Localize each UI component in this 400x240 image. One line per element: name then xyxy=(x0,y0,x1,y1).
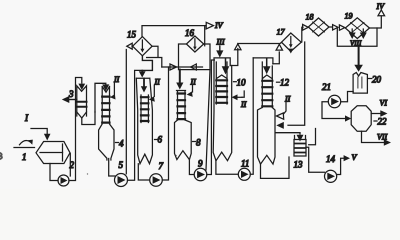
scan speckle xyxy=(87,155,177,175)
node II steam to column 8 xyxy=(187,78,197,97)
label 4 xyxy=(116,139,125,149)
wire drum bottom outlet into column 8 top xyxy=(176,70,183,90)
wire column 12 vapor riser to exchanger 17 xyxy=(273,42,283,64)
svg-text:4: 4 xyxy=(119,139,124,149)
wire column 4 bottoms to pump 5 xyxy=(109,159,115,177)
wire side draw from column 12 to stripper 13 xyxy=(276,133,304,142)
wire pump 11 discharge riser to column 12 top xyxy=(250,58,253,174)
label 12 xyxy=(277,78,290,88)
stripper 13 inlet collar xyxy=(295,136,306,140)
node VII outlet xyxy=(362,131,392,146)
label 21 xyxy=(322,82,331,92)
label 10 xyxy=(234,77,247,87)
node V outlet xyxy=(352,153,358,162)
wire pump discharge riser to vessel 3 xyxy=(69,78,85,181)
wire exchanger 19 to IV outlet xyxy=(370,10,385,28)
svg-text:9: 9 xyxy=(198,159,203,169)
svg-text:22: 22 xyxy=(378,117,388,127)
pump 9 xyxy=(194,168,207,181)
svg-text:5: 5 xyxy=(119,160,124,170)
wire feed I into reactor xyxy=(31,129,51,141)
node VI outlet xyxy=(371,99,387,117)
wire feed line from right with II steam branch xyxy=(232,91,245,100)
svg-text:I: I xyxy=(24,113,29,123)
label 16 xyxy=(185,28,195,38)
wire gooseneck feed into column 4 top xyxy=(95,83,109,112)
svg-text:6: 6 xyxy=(158,135,163,145)
wire internal feed pipe into column 10 xyxy=(222,59,230,75)
wire open arrow at exchanger 15 left vertex xyxy=(127,43,133,49)
label 9 xyxy=(198,159,203,169)
wire product arrow from vessel 3 xyxy=(62,96,77,103)
pump 11 xyxy=(238,168,250,180)
node IV right outlet xyxy=(376,2,386,11)
column 6 xyxy=(136,78,152,164)
label 6 xyxy=(155,135,163,145)
svg-text:IV: IV xyxy=(214,21,224,30)
svg-text:21: 21 xyxy=(322,82,331,92)
wire stripper 13 riser stub xyxy=(309,129,316,145)
wire reactor bottom to pump xyxy=(50,164,58,181)
accumulator drum under exchanger 16 xyxy=(179,44,211,70)
svg-text:14: 14 xyxy=(326,154,336,164)
stripper 13 xyxy=(294,140,306,157)
label 5 xyxy=(119,160,124,170)
node II steam to column 4 xyxy=(110,75,120,100)
pump 21 xyxy=(328,95,340,107)
label 20 xyxy=(369,75,382,85)
svg-text:7: 7 xyxy=(159,161,164,171)
label 7 xyxy=(159,161,164,171)
node VIII collector box under 18-19 xyxy=(337,27,377,47)
svg-text:VII: VII xyxy=(377,133,388,142)
svg-text:8: 8 xyxy=(196,138,201,148)
wire vessel 20 outlet to pump 21 xyxy=(341,92,353,102)
svg-text:VIII: VIII xyxy=(350,40,362,48)
wire VIII down into vessel 20 xyxy=(354,46,363,71)
svg-text:IV: IV xyxy=(376,2,386,11)
pump 14 xyxy=(325,170,337,182)
node II steam to column 10 xyxy=(240,100,247,109)
svg-text:16: 16 xyxy=(185,28,195,38)
wire exchanger 15 right vertex to header xyxy=(147,46,162,67)
label 3 xyxy=(68,89,74,99)
wire reflux line from condenser 15 down to pump 5 xyxy=(125,50,127,174)
wire stripper 13 bottoms to pump 14 xyxy=(306,147,325,172)
svg-text:19: 19 xyxy=(345,12,353,21)
svg-text:V: V xyxy=(352,153,358,162)
wire exchanger 17 condensate down into column 12 xyxy=(276,42,304,129)
wire pump 5 discharge riser to column 6 feed xyxy=(128,70,143,180)
mixer 1 rotary symbol xyxy=(14,140,35,148)
node III feed label xyxy=(216,38,225,47)
wire exchanger 15 bottom S-jog into column 6 top xyxy=(139,56,153,78)
wire exchanger 17 to exchanger 18 xyxy=(301,24,308,42)
label 18 xyxy=(306,13,314,22)
svg-text:12: 12 xyxy=(280,78,290,88)
label 11 xyxy=(241,159,249,169)
svg-text:III: III xyxy=(216,38,225,47)
label 19 xyxy=(345,12,353,21)
label 2 xyxy=(70,160,75,170)
column 10 xyxy=(213,58,232,161)
pump under reactor 2 xyxy=(58,175,69,186)
vessel 22 xyxy=(351,106,371,132)
heat exchanger 15 xyxy=(133,37,153,56)
scan smudge left edge xyxy=(0,153,2,159)
svg-text:11: 11 xyxy=(241,159,249,169)
wire vessel 3 bottoms to column 4 xyxy=(82,112,95,125)
heat exchanger 17 xyxy=(282,33,302,54)
wire IV header drop to exchanger 16 xyxy=(204,26,206,46)
label 13 xyxy=(294,160,304,170)
wire internal feed pipe into column 12 xyxy=(263,59,271,74)
node IV left outlet xyxy=(206,21,223,30)
wire III feed arrow into column 10 xyxy=(216,46,223,58)
heat exchanger 18 xyxy=(308,18,329,36)
column 4 xyxy=(99,87,114,161)
label 17 xyxy=(277,28,286,37)
svg-text:II: II xyxy=(240,100,247,109)
reactor 2 hexagonal vessel xyxy=(36,142,70,164)
wire pump 14 discharge to V outlet xyxy=(337,155,350,174)
wire exchanger 18 to exchanger 19 xyxy=(329,25,345,31)
wire pump 21 to vessel 22 xyxy=(322,102,351,122)
wire column 12 bottoms loop xyxy=(261,157,290,178)
wire column 6 bottoms to pump 7 xyxy=(138,164,149,180)
heat exchanger 19 xyxy=(345,18,369,39)
node I feed label xyxy=(24,113,29,123)
svg-text:18: 18 xyxy=(306,13,314,22)
heat exchanger 16 xyxy=(186,36,203,52)
node II steam to column 12 xyxy=(277,95,291,120)
vessel 20 xyxy=(353,73,367,94)
pump 7 xyxy=(150,174,163,187)
svg-text:10: 10 xyxy=(237,77,247,87)
wire pump 7 discharge riser to header xyxy=(162,67,168,180)
svg-text:VI: VI xyxy=(380,99,388,108)
svg-text:13: 13 xyxy=(294,160,304,170)
wire pump 9 discharge riser to column 10 top xyxy=(207,60,215,175)
wire column 10 bottoms to pump 11 xyxy=(216,161,238,174)
column 12 xyxy=(253,58,275,164)
label 15 xyxy=(127,30,137,40)
label 8 xyxy=(193,138,202,148)
pump 5 xyxy=(115,174,128,187)
svg-text:15: 15 xyxy=(127,30,137,40)
node II steam to column 6 xyxy=(149,78,160,102)
label 14 xyxy=(326,154,336,164)
svg-text:20: 20 xyxy=(372,75,382,85)
vessel 3 stripper xyxy=(77,86,87,118)
column 8 xyxy=(175,91,192,160)
wire column 8 bottoms to pump 9 xyxy=(189,160,194,175)
label 22 xyxy=(374,117,387,127)
label 1 xyxy=(22,152,27,162)
wire drum outlet down along column 8 right xyxy=(206,70,210,170)
svg-text:1: 1 xyxy=(22,152,27,162)
svg-text:II: II xyxy=(284,95,291,104)
wire header with flow arrows into drum xyxy=(162,64,203,70)
wire exchanger 15 top to IV header xyxy=(142,26,206,37)
wire column 10 vapor riser to header xyxy=(230,44,279,66)
svg-text:17: 17 xyxy=(277,28,286,37)
